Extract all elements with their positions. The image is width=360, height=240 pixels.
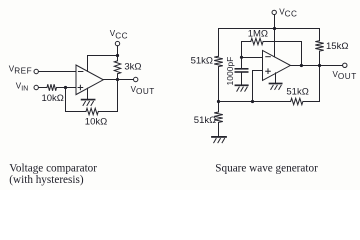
resistor R1 10k input [47,84,57,90]
svg-text:3kΩ: 3kΩ [124,61,141,72]
wire 1M left [242,41,251,43]
wire bottom rail [219,101,291,103]
node VOUT terminal [343,63,347,67]
wire hysteresis to output [303,66,320,102]
svg-text:VOUT: VOUT [333,70,357,81]
wire plus input branch [253,71,263,102]
ground op-amp U1 [87,88,89,99]
wire VREF to inverting input [39,71,76,73]
svg-text:VREF: VREF [9,65,32,76]
svg-text:51kΩ: 51kΩ [194,115,216,126]
node VOUT terminal [134,77,138,81]
svg-text:VCC: VCC [110,29,128,40]
node junction plus branch [251,100,254,103]
wire output [290,65,342,67]
wire cap to ground [241,73,243,85]
wire VIN to resistor [39,87,47,89]
svg-text:(with hysteresis): (with hysteresis) [9,174,84,186]
resistor R3 10k feedback [86,108,98,114]
wire 3k to output node [117,74,119,80]
op-amp U1 [76,65,103,95]
svg-text:Square wave generator: Square wave generator [215,162,318,174]
svg-text:1000pF: 1000pF [225,57,235,86]
node junction minus [240,56,243,59]
capacitor C1 1000pF [235,68,247,70]
node junction VCC rail [273,27,276,30]
wire to ground [218,123,220,137]
wire supply to VCC rail [88,56,118,72]
wire minus node up and down to cap [241,42,243,69]
node junction 1M output [300,64,303,67]
wire VCC to op-amp supply [274,15,276,57]
svg-text:10kΩ: 10kΩ [85,117,107,128]
wire 15k upper [319,29,321,41]
svg-text:VCC: VCC [279,8,297,19]
resistor R4 51k divider top [214,56,223,66]
svg-text:51kΩ: 51kΩ [286,86,308,97]
ground cap [235,84,247,86]
node VIN terminal [34,85,38,89]
node VREF terminal [34,69,38,73]
ground op-amp U2 [275,73,277,83]
wire minus input [242,57,263,59]
ground divider [212,136,226,138]
svg-text:VOUT: VOUT [131,85,155,96]
wire top rail [219,28,320,30]
node VCC terminal [272,10,276,14]
resistor R6 51k hysteresis [291,98,303,104]
resistor R8 15k pullup [315,41,323,51]
wire feedback to output [99,80,118,112]
node junction VCC rail [116,54,119,57]
svg-text:1MΩ: 1MΩ [248,29,268,40]
pin minus sign [266,56,271,58]
svg-text:51kΩ: 51kΩ [191,56,213,67]
node junction output [116,78,119,81]
svg-text:10kΩ: 10kΩ [41,93,63,104]
wire left rail upper [218,29,220,57]
svg-text:Voltage comparator: Voltage comparator [9,162,97,174]
pin minus sign [78,71,83,73]
wire left rail middle [218,67,220,112]
wire VCC down [117,46,119,61]
wire output [103,79,133,81]
resistor R2 3k pullup [114,61,120,74]
pin plus sign [78,85,83,90]
node junction 15k output [318,64,321,67]
node VCC terminal [115,41,119,45]
wire feedback [66,88,87,112]
resistor R7 1M feedback [251,38,263,44]
op-amp U2 [263,50,291,80]
wire 15k to output [319,51,321,65]
svg-text:15kΩ: 15kΩ [326,41,348,52]
pin plus sign [266,69,271,74]
wire resistor to + input [57,87,76,89]
wire 1M to output [263,42,301,66]
node junction divider [217,100,220,103]
node junction plus-input [64,86,67,89]
resistor R5 51k divider bottom [214,112,223,122]
svg-text:VIN: VIN [16,81,28,92]
